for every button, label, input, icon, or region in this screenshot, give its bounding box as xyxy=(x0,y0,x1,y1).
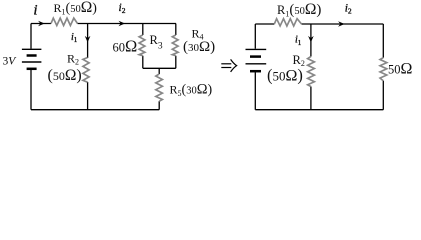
svg-text:(50Ω): (50Ω) xyxy=(48,67,82,84)
svg-text:(30Ω): (30Ω) xyxy=(183,39,215,55)
svg-text:R2: R2 xyxy=(67,52,79,67)
svg-text:i2: i2 xyxy=(119,2,126,15)
svg-text:i2: i2 xyxy=(345,3,352,16)
svg-text:R5(30Ω): R5(30Ω) xyxy=(170,82,213,99)
svg-text:i1: i1 xyxy=(295,34,302,47)
svg-text:R1(50Ω): R1(50Ω) xyxy=(277,1,321,19)
svg-text:i: i xyxy=(33,3,37,19)
svg-text:i1: i1 xyxy=(71,32,78,44)
svg-text:60Ω: 60Ω xyxy=(113,37,138,56)
svg-text:R1(50Ω): R1(50Ω) xyxy=(54,0,98,17)
svg-text:R3: R3 xyxy=(150,33,163,52)
svg-text:50Ω: 50Ω xyxy=(388,61,413,78)
svg-text:(50Ω): (50Ω) xyxy=(267,66,303,85)
svg-text:3V: 3V xyxy=(3,56,18,68)
